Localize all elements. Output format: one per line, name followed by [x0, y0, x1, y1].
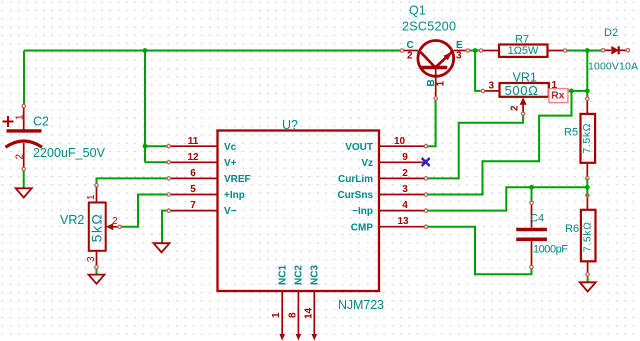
wire CurLim staircase up to VR1 wiper — [428, 115, 523, 179]
Q1 emitter arrow — [444, 52, 452, 60]
svg-text:V+: V+ — [224, 158, 237, 169]
svg-text:VR2: VR2 — [60, 213, 84, 227]
junction on rail at x145 — [143, 48, 148, 53]
svg-text:C: C — [407, 40, 414, 51]
svg-text:1Ω5W: 1Ω5W — [508, 45, 539, 57]
R7 right pin ring — [563, 49, 566, 52]
C2 pin2 ring — [22, 167, 25, 170]
VR2 bottom pin ring — [95, 265, 98, 268]
R7 left pin — [483, 50, 499, 52]
wire CMP to C4 bottom — [428, 227, 532, 275]
wire R7 right to D2 anode — [567, 50, 601, 52]
VR1 wiper arrow — [520, 98, 527, 105]
VR2 top pin — [96, 187, 98, 203]
R7 right pin — [548, 50, 564, 52]
R6 bottom pin ring — [586, 273, 589, 276]
wire V- to ground — [162, 211, 167, 243]
R6 top pin ring — [586, 194, 589, 197]
svg-text:Rx: Rx — [551, 90, 565, 102]
R6 bottom pin — [587, 261, 589, 272]
D2 triangle — [611, 46, 619, 55]
potentiometer VR2 body — [89, 203, 106, 251]
wire to pin 12 — [145, 161, 167, 163]
svg-text:5: 5 — [190, 184, 196, 195]
VR1 left pin — [485, 90, 500, 92]
R6 top pin — [586, 197, 588, 209]
svg-text:U?: U? — [282, 118, 298, 132]
svg-text:V−: V− — [224, 206, 237, 217]
svg-text:CurSns: CurSns — [337, 190, 373, 201]
NC pin arrows — [279, 334, 317, 341]
wire -Inp to R5/R6 divider — [428, 187, 587, 210]
R5 top pin ring — [586, 97, 589, 100]
wire top rail from C2 to Q1 collector — [24, 50, 400, 52]
Rx net label box — [549, 89, 568, 103]
svg-text:500Ω: 500Ω — [505, 83, 539, 98]
transistor Q1 — [404, 41, 466, 97]
svg-text:7: 7 — [190, 200, 196, 211]
IC right pin rings — [424, 145, 427, 229]
R5 top pin — [586, 101, 588, 114]
svg-text:1: 1 — [15, 114, 26, 120]
wire node down to R5 top — [586, 51, 588, 97]
svg-text:5kΩ: 5kΩ — [89, 213, 105, 243]
ground under C2 — [16, 188, 32, 197]
svg-text:7.5kΩ: 7.5kΩ — [582, 222, 594, 252]
capacitor C2 — [3, 108, 43, 168]
svg-text:Vc: Vc — [224, 142, 237, 153]
junction at C4 branch — [529, 185, 534, 190]
svg-text:D2: D2 — [604, 27, 618, 39]
potentiometer VR1 body — [500, 83, 549, 97]
wire R6 bottom to ground — [587, 276, 589, 282]
VR1 wiper ring — [521, 112, 524, 115]
Q1 emitter pin ring — [466, 49, 469, 52]
IC U? NJM723 body — [218, 131, 380, 292]
svg-text:1000pF: 1000pF — [533, 244, 568, 256]
ground below R6 — [580, 282, 596, 291]
svg-text:C2: C2 — [33, 115, 49, 129]
VR2 wiper ring — [118, 225, 121, 228]
junction at IC pin 11 — [143, 144, 148, 149]
svg-text:2200uF_50V: 2200uF_50V — [33, 146, 106, 160]
junction at R7/D2 node — [585, 48, 590, 53]
svg-text:10: 10 — [394, 136, 406, 147]
svg-text:1: 1 — [271, 312, 282, 318]
wire divider node down to C4 top — [531, 187, 533, 201]
IC left pins: stubs — [171, 146, 218, 210]
svg-text:VOUT: VOUT — [345, 142, 373, 153]
svg-text:1: 1 — [86, 194, 97, 200]
wire VR1 pin 1 to R5 node — [569, 90, 588, 92]
svg-text:Vz: Vz — [361, 158, 373, 169]
VR1 left pin ring — [481, 89, 484, 92]
IC bottom NC pins stubs — [282, 291, 314, 335]
resistor R7 — [499, 45, 548, 57]
junction at emitter node — [473, 48, 478, 53]
svg-text:NC2: NC2 — [294, 265, 305, 285]
svg-text:12: 12 — [187, 152, 199, 163]
R7 left pin ring — [479, 49, 482, 52]
svg-text:3: 3 — [489, 81, 495, 92]
svg-text:3: 3 — [402, 184, 408, 195]
svg-text:2: 2 — [402, 168, 408, 179]
svg-text:7.5kΩ: 7.5kΩ — [581, 123, 593, 153]
svg-text:13: 13 — [397, 216, 409, 227]
svg-text:CurLim: CurLim — [338, 174, 373, 185]
svg-text:−Inp: −Inp — [352, 206, 373, 217]
Q1 base pin ring — [434, 97, 437, 100]
svg-text:VREF: VREF — [224, 174, 251, 185]
svg-text:14: 14 — [303, 307, 314, 319]
capacitor C4 — [516, 205, 547, 265]
svg-text:11: 11 — [188, 136, 199, 147]
svg-text:3: 3 — [86, 256, 97, 262]
svg-text:NC3: NC3 — [310, 265, 321, 285]
wire VR2 wiper to +Inp — [122, 195, 167, 227]
wire C2 negative to ground — [23, 170, 25, 188]
svg-text:NJM723: NJM723 — [338, 298, 384, 312]
svg-text:1000V10A: 1000V10A — [588, 61, 638, 73]
ground below VR2 — [89, 275, 105, 284]
wire Q1 emitter to R7 — [470, 50, 479, 52]
VR1 right pin ring — [565, 89, 568, 92]
wire CurSns staircase up to VR1 pin1 node — [428, 91, 572, 195]
svg-text:2: 2 — [510, 105, 521, 111]
diode D2 — [605, 46, 626, 54]
svg-text:C4: C4 — [530, 213, 544, 225]
junction VR1 pin1 wire at x571.5 — [569, 89, 574, 94]
svg-text:8: 8 — [287, 312, 298, 318]
VR2 bottom pin — [96, 251, 98, 265]
ground below V- — [154, 243, 170, 252]
resistor R6 — [581, 210, 596, 261]
junction at R5/R6 divider — [585, 185, 590, 190]
C4 bottom pin ring — [530, 265, 533, 268]
VR1 right pin — [549, 90, 565, 92]
svg-text:+Inp: +Inp — [224, 190, 245, 201]
wire to pin 11 — [145, 145, 167, 147]
svg-text:6: 6 — [190, 168, 196, 179]
junction at x587 y90.9 — [585, 89, 590, 94]
R5 bottom pin ring — [586, 176, 589, 179]
VR2 top pin ring — [95, 184, 98, 187]
VR1 wiper pin — [522, 105, 524, 112]
IC right pins: stubs — [379, 146, 424, 227]
svg-text:9: 9 — [402, 152, 408, 163]
VR2 wiper pin — [113, 226, 117, 228]
resistor R5 — [581, 114, 596, 163]
wire left drop to C2 positive — [23, 51, 25, 105]
D2 cathode ring — [626, 49, 629, 52]
wire VREF to VR2 top — [97, 178, 167, 183]
wire drop from rail to IC pins 11 and 12 — [144, 51, 146, 163]
svg-text:R7: R7 — [515, 34, 529, 46]
svg-text:NC1: NC1 — [278, 265, 289, 285]
svg-text:2: 2 — [407, 51, 413, 62]
svg-text:R6: R6 — [565, 223, 579, 235]
svg-text:2: 2 — [112, 216, 118, 227]
Q1 collector pin ring — [400, 49, 403, 52]
svg-text:1: 1 — [436, 81, 447, 87]
IC left pin rings — [167, 145, 170, 213]
C2 pin1 ring — [22, 104, 25, 107]
C4 top pin ring — [530, 201, 533, 204]
svg-text:Q1: Q1 — [409, 4, 426, 18]
svg-text:2: 2 — [15, 154, 26, 160]
svg-text:3: 3 — [456, 51, 462, 62]
R5 bottom pin — [586, 163, 588, 176]
svg-text:4: 4 — [402, 200, 408, 211]
svg-text:2SC5200: 2SC5200 — [402, 20, 456, 34]
VR2 wiper arrow — [106, 223, 113, 230]
wire VR2 bottom to ground — [96, 269, 98, 275]
D2 anode ring — [601, 49, 604, 52]
svg-text:CMP: CMP — [351, 222, 374, 233]
wire R5 bottom to R6 top — [586, 179, 588, 197]
svg-text:R5: R5 — [564, 127, 578, 139]
svg-text:E: E — [456, 40, 463, 51]
wire emitter node down to VR1 pin 3 — [475, 51, 480, 91]
wire VOUT to Q1 base — [428, 101, 436, 147]
no-connect X at pin 9 — [422, 158, 430, 166]
